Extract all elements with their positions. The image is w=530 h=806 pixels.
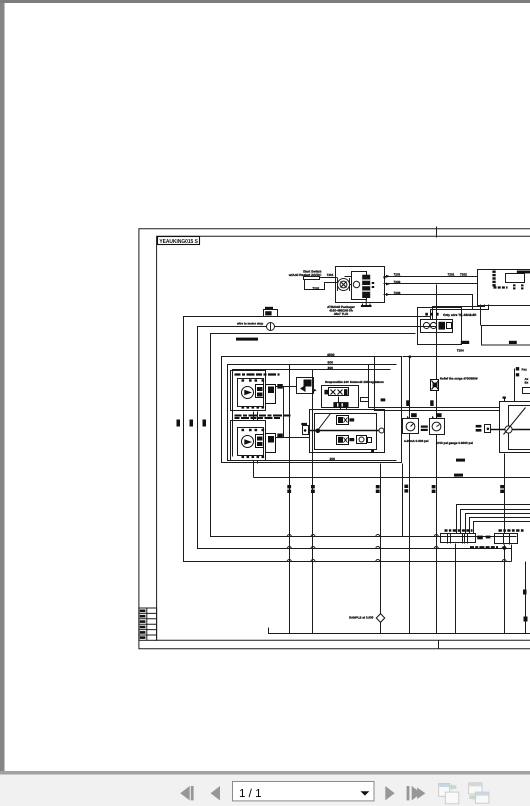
manifold L-wire 5 <box>474 522 530 534</box>
assembly lever <box>504 408 526 435</box>
right assembly feed <box>514 369 516 402</box>
remote wire note frame <box>418 308 462 345</box>
manifold right internal ticks <box>504 534 510 545</box>
drawing inner border <box>157 236 530 640</box>
V3 label <box>349 438 354 441</box>
cabinet wire drop A <box>480 305 482 326</box>
assembly inlet box <box>485 425 491 433</box>
port box T <box>361 398 369 402</box>
fold mark <box>436 227 438 238</box>
svg-text:7201: 7201 <box>448 272 455 276</box>
main control valve frame <box>322 386 359 408</box>
svg-text:4-20mA 0-600 psi: 4-20mA 0-600 psi <box>404 439 429 443</box>
hpu enclosure B <box>228 365 397 461</box>
terminal strip <box>492 271 495 287</box>
svg-text:7204: 7204 <box>457 349 464 353</box>
wire relay bottom loop <box>305 280 336 290</box>
pump discharge bus <box>276 387 310 438</box>
valve drains <box>339 397 347 410</box>
crossover bumps bus2 <box>287 547 506 549</box>
svg-text:Responsible 24V Solenoid 230 r: Responsible 24V Solenoid 230 regulators <box>325 380 384 384</box>
manifold left internal ticks <box>448 534 468 544</box>
far right drop label <box>524 617 528 622</box>
terminal labels <box>494 286 508 288</box>
manifold L-wire 4 <box>470 518 530 534</box>
crossover bumps bus3 <box>287 535 438 537</box>
title box <box>158 237 200 245</box>
manifold left ports row <box>445 529 473 531</box>
port tick B1 <box>311 485 315 493</box>
svg-text:Bx: Bx <box>525 380 529 384</box>
valve side ticks <box>372 282 375 288</box>
viewer page left edge <box>0 3 5 773</box>
vertical label g2 <box>430 400 433 406</box>
wire 7203 <box>384 295 473 310</box>
hydraulic block inner <box>315 414 377 450</box>
wire gauge2 feed <box>436 285 438 346</box>
pump P0 <box>353 281 359 287</box>
bus label row <box>236 338 258 341</box>
junction dot <box>408 355 411 358</box>
starter text label <box>288 270 322 278</box>
svg-text:7201: 7201 <box>327 273 334 277</box>
relief valve RV1 <box>337 416 349 425</box>
outlet port <box>379 428 384 433</box>
wire arrowheads <box>386 275 390 296</box>
inlet label <box>301 423 307 425</box>
pressure switch label <box>265 307 273 310</box>
svg-text:7202: 7202 <box>312 287 319 291</box>
drawing outer border <box>139 229 530 649</box>
bus line 2 <box>198 327 512 549</box>
starter relay box <box>304 277 320 280</box>
bus line 3 <box>211 334 517 537</box>
manifold left drop <box>455 544 457 634</box>
fold mark bottom <box>438 641 440 649</box>
hydraulic block outer <box>310 410 385 453</box>
motor M1 <box>338 278 350 291</box>
assembly gallery <box>490 429 530 431</box>
wire gauge1 drop <box>409 357 411 634</box>
manifold left box <box>441 534 476 543</box>
svg-text:7202: 7202 <box>394 280 401 284</box>
diamond drain <box>380 464 382 634</box>
svg-text:SAMPLE at 0.500: SAMPLE at 0.500 <box>349 616 374 620</box>
port tick A1 <box>287 485 291 493</box>
page number combo box <box>233 782 375 801</box>
level gauge symbol <box>267 323 275 331</box>
control inner module <box>506 274 525 283</box>
svg-text:4500: 4500 <box>327 353 335 357</box>
power unit label <box>327 305 355 316</box>
hpu enclosure A <box>222 357 402 463</box>
svg-text:4700 psi gauge 0-6000 psi: 4700 psi gauge 0-6000 psi <box>436 441 473 445</box>
svg-text:200: 200 <box>330 457 336 461</box>
tank T0 <box>361 299 372 306</box>
port tick P2 <box>500 485 504 493</box>
line label A <box>456 459 465 462</box>
control top bar <box>517 271 530 274</box>
wire labels <box>394 272 468 294</box>
pump unit P2 <box>231 421 283 461</box>
pump P1 to P2 links <box>254 412 258 421</box>
toolbar background <box>0 775 530 806</box>
right assembly drop <box>504 454 506 634</box>
wire gauge2 drop <box>436 346 438 634</box>
manifold L-wire 3 <box>466 514 530 534</box>
wire 7201 start tick <box>383 273 385 279</box>
right assembly notes <box>522 368 529 385</box>
sequence box <box>297 378 314 394</box>
feed ticks <box>516 367 519 376</box>
R1 label <box>461 341 469 344</box>
cabinet wire drop B <box>433 305 485 320</box>
bus wire number labels <box>177 420 207 427</box>
valve V4 <box>357 436 372 444</box>
drain diamond <box>376 614 384 623</box>
manifold L-wire 2 <box>461 510 530 534</box>
manifold right box <box>495 534 518 544</box>
gauge G2 label <box>432 413 442 418</box>
wire relay to power unit <box>320 277 336 279</box>
manifold right drop <box>511 545 513 562</box>
crossover bumps bus1 <box>287 560 506 562</box>
cooler valve box <box>421 320 453 333</box>
manifold middle labels <box>477 536 490 540</box>
pressure switch S1 <box>264 310 278 317</box>
port tick T1 <box>376 485 380 493</box>
port label <box>381 398 386 401</box>
svg-text:Relief the surge 4700/850#: Relief the surge 4700/850# <box>440 377 478 381</box>
first page button <box>180 786 193 800</box>
pump unit frame <box>352 272 367 300</box>
pump unit P2 title <box>235 416 291 419</box>
power unit enclosure <box>336 267 385 303</box>
check valve CV1 <box>431 380 439 391</box>
drop label <box>523 590 527 595</box>
R2 label <box>509 341 517 344</box>
svg-text:45x7 7L/S: 45x7 7L/S <box>334 312 348 316</box>
svg-text:YEAUKING015 S: YEAUKING015 S <box>159 239 198 245</box>
right assembly outer <box>500 402 530 453</box>
right assembly inner <box>509 406 530 450</box>
junction node <box>316 429 321 434</box>
gauge G1 label <box>407 413 417 418</box>
solenoid valve V1 <box>324 388 348 396</box>
valve stack <box>362 275 370 298</box>
viewer page bottom edge <box>0 771 530 775</box>
hpu enclosure C <box>233 370 391 457</box>
assembly inlet label <box>476 425 482 432</box>
port tick P1 <box>404 485 408 493</box>
inlet box <box>303 426 309 435</box>
pump unit P1 <box>231 371 283 411</box>
block internal wires <box>336 277 352 285</box>
cooler motor <box>423 322 429 328</box>
bend wire lower <box>375 357 500 411</box>
svg-text:wire to motor stop: wire to motor stop <box>236 322 263 326</box>
manifold L-wire 1 <box>457 505 530 534</box>
cooler port <box>447 323 452 329</box>
pump2 drop to hose <box>253 461 255 478</box>
pump drain 2 <box>312 370 314 634</box>
manifold note <box>470 546 498 548</box>
line label hose <box>454 474 463 477</box>
manifold right ports row <box>499 529 524 531</box>
junction box R2 <box>482 326 530 346</box>
assembly gauge <box>505 426 512 433</box>
bend wire upper <box>369 365 500 408</box>
label 400-100 <box>421 426 428 432</box>
next page button <box>385 786 394 800</box>
revision table entries <box>140 610 146 639</box>
svg-text:300: 300 <box>328 366 334 370</box>
wire 7201 <box>384 276 478 278</box>
RV1 label <box>349 418 354 421</box>
bus line 1 <box>184 317 512 562</box>
next view button (disabled) <box>469 783 489 803</box>
wire enclosure A drop <box>402 464 404 537</box>
pilot valve V2 <box>333 402 348 408</box>
block drain tick <box>371 450 374 453</box>
svg-text:7202: 7202 <box>460 272 467 276</box>
return rail <box>269 628 530 634</box>
cabinet wire drop C <box>431 305 489 320</box>
svg-text:500: 500 <box>328 361 334 365</box>
assembly top tick <box>503 397 506 402</box>
last page button <box>407 786 426 800</box>
valve V3 <box>337 436 349 445</box>
previous view button (disabled) <box>439 784 459 804</box>
svg-text:7201: 7201 <box>394 272 401 276</box>
vertical label g1 <box>406 400 409 406</box>
pump drain 1 <box>289 365 291 634</box>
sequence box arrow <box>314 389 317 392</box>
only-wire port labels <box>425 313 438 316</box>
previous page button <box>211 786 220 800</box>
viewer page top edge <box>0 0 530 3</box>
hose line <box>254 477 530 479</box>
gauge G1 <box>403 419 419 434</box>
cooler core <box>439 322 446 330</box>
linkage <box>318 414 331 431</box>
svg-text:Only wire TK-48/48.8ft: Only wire TK-48/48.8ft <box>443 313 477 317</box>
svg-text:7203: 7203 <box>394 291 401 295</box>
revision table <box>139 608 157 640</box>
corner duct <box>523 388 530 394</box>
main gallery <box>308 430 383 432</box>
svg-text:1 / 1: 1 / 1 <box>239 787 262 800</box>
enclosure A top extension <box>403 356 530 358</box>
wire 7202 <box>384 283 478 285</box>
terminal pins <box>513 284 524 289</box>
svg-text:Pxx: Pxx <box>522 368 528 372</box>
cooler fan <box>430 322 436 328</box>
control cabinet <box>478 270 530 306</box>
gauge G2 <box>430 419 445 435</box>
right box bottom tick <box>503 547 506 550</box>
port tick T2 <box>432 485 436 493</box>
pump2 drain stub <box>257 461 259 464</box>
far right drop <box>525 562 527 634</box>
